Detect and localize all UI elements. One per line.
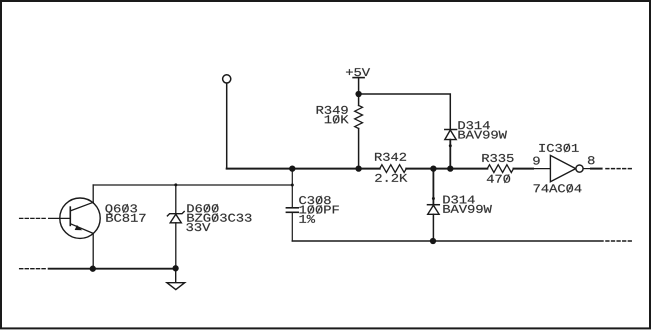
wire: R349 bottom to main net: [358, 129, 360, 169]
wire: lower-left net: [49, 268, 176, 270]
value 1%: [299, 215, 315, 223]
transistor Q603 emitter arrow: [75, 225, 83, 230]
label IC301: [539, 144, 578, 153]
zener D600 triangle: [170, 214, 181, 223]
label +5V: [346, 68, 370, 76]
wire: collector net y=185: [93, 184, 292, 186]
pin 9: [533, 157, 539, 165]
inverter IC301 triangle: [550, 155, 575, 181]
label C308: [299, 196, 330, 205]
junction D314-bottom/main: [430, 165, 436, 171]
ground symbol: [167, 283, 185, 290]
wire: C308 bottom lead: [291, 213, 293, 241]
value 74AC04: [534, 184, 582, 193]
value 10K: [325, 115, 349, 124]
junction D314-bottom/lower net: [430, 238, 436, 244]
label Q603: [105, 204, 137, 215]
terminal open circle: [223, 75, 231, 83]
transistor Q603 emitter diagonal: [70, 224, 93, 234]
value 470: [487, 174, 510, 183]
wire: terminal vertical drop: [226, 83, 228, 168]
resistor R349 zigzag: [355, 105, 363, 128]
wire: collector vertical: [92, 185, 94, 202]
wire: D314 top anode to main net: [449, 140, 451, 169]
wire: +5V to R349: [358, 78, 360, 106]
diode D314 top triangle: [445, 130, 456, 140]
value BAV99W (bottom): [443, 205, 492, 213]
power +5V bar: [353, 77, 364, 79]
junction D314-top/main: [447, 165, 453, 171]
capacitor C308 plates: [286, 207, 298, 209]
label R349: [317, 106, 348, 114]
wire: base lead: [49, 217, 71, 219]
pin 8: [588, 156, 595, 164]
wire: base dotted lead-in: [20, 217, 47, 219]
wire: inverter output lead pin 8: [583, 168, 591, 170]
diode D314 bottom cathode bar: [428, 204, 440, 206]
wire: inverter input lead pin 9: [533, 168, 550, 170]
wire: D600 anode lead: [175, 223, 177, 269]
label R342: [375, 153, 406, 161]
wire: main horizontal net between R342 and R335: [406, 168, 487, 170]
wire: main net down to D314 bottom: [432, 169, 434, 205]
value BC817: [106, 214, 145, 222]
label R335: [482, 154, 513, 162]
junction C308 tap / y185 net: [291, 184, 294, 187]
label D314 (bottom): [443, 195, 474, 203]
transistor Q603 circle: [60, 198, 100, 238]
wire: main horizontal net R335 to inverter: [514, 168, 534, 170]
zener D600 cathode bar with hooks: [167, 212, 184, 216]
wire: lower-left dotted lead-in: [20, 268, 47, 270]
value BZG03C33: [187, 213, 251, 222]
junction emitter/lower-left net: [90, 266, 96, 272]
label D314 (top): [458, 121, 489, 129]
junction C308/main: [289, 165, 295, 171]
pin dot D314 bottom: [432, 197, 435, 200]
ground lead: [175, 269, 177, 283]
diode D314 bottom triangle: [428, 205, 439, 214]
junction D600/lower-left net: [172, 265, 178, 271]
wire: main horizontal net y=168.6 left segment: [227, 168, 380, 170]
wire: output net dotted continuation: [606, 168, 632, 170]
diode D314 top cathode bar: [445, 129, 457, 131]
resistor R342 zigzag: [380, 165, 407, 173]
junction R349/main: [355, 165, 361, 171]
junction +5V branch: [355, 91, 361, 97]
wire: emitter vertical: [92, 233, 94, 268]
value 33V: [186, 223, 210, 231]
junction D600 / y185 net: [174, 183, 177, 186]
wire: lower net dotted continuation: [606, 240, 632, 242]
pin dot D314 top: [449, 144, 452, 147]
transistor Q603 base bar: [69, 207, 71, 225]
wire: lower horizontal net y=241: [292, 240, 603, 242]
resistor R335 zigzag: [487, 165, 513, 173]
transistor Q603 collector diagonal: [70, 202, 93, 211]
wire: D314 bottom anode to lower net: [432, 214, 434, 241]
wire: output net stub: [591, 168, 602, 170]
value BAV99W (top): [458, 131, 507, 139]
value 100PF: [299, 205, 338, 214]
wire: main net down to C308: [291, 169, 293, 207]
inverter IC301 output bubble: [576, 165, 583, 172]
wire: +5V branch to top diode: [359, 94, 451, 130]
value 2.2K: [375, 174, 407, 182]
wire: D600 cathode lead: [175, 185, 177, 214]
label D600: [187, 204, 218, 213]
